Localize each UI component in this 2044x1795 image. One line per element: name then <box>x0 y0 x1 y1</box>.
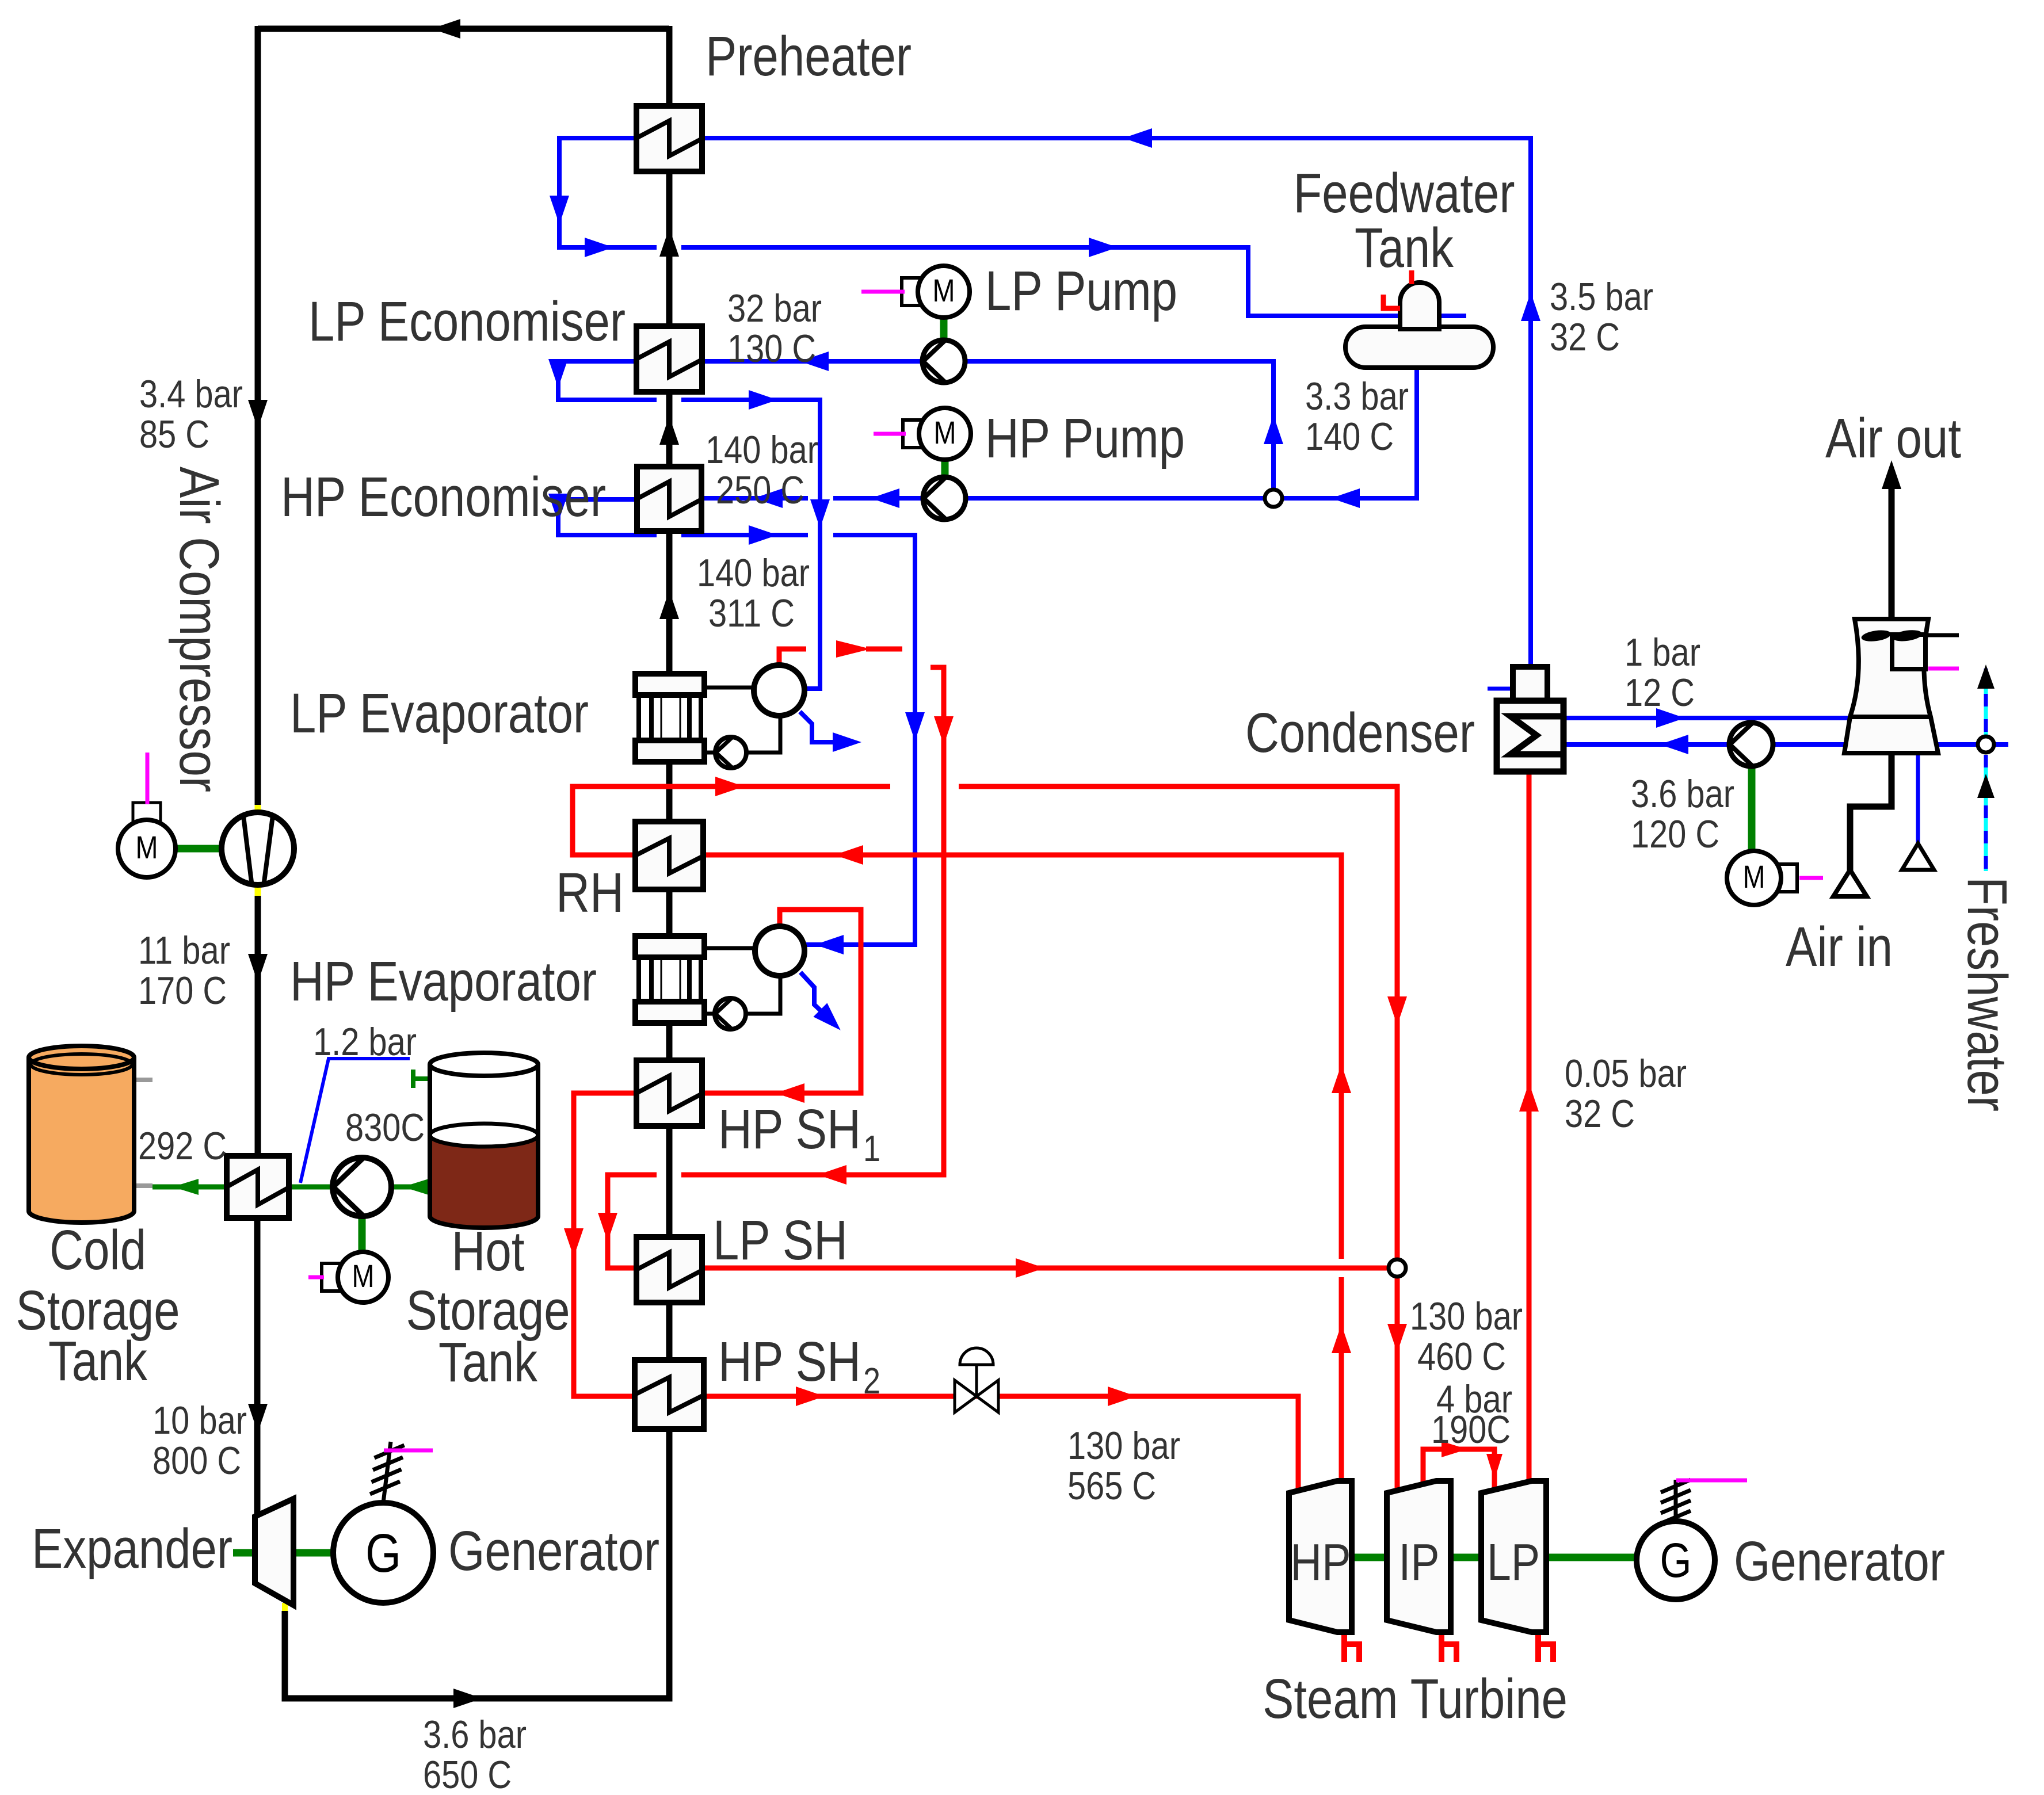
svg-text:3.6 bar: 3.6 bar <box>1631 772 1734 816</box>
arrow duct up 3 <box>659 590 679 619</box>
svg-text:32 bar: 32 bar <box>727 287 822 330</box>
wire air pipe TES HX to expander <box>254 1218 261 1519</box>
arrow HP steam right 2 <box>1108 1387 1137 1406</box>
pump HP feed pump <box>923 477 966 520</box>
wire shaft compressor motor <box>176 845 222 853</box>
svg-text:650 C: 650 C <box>423 1753 512 1795</box>
wire shaft expander generator <box>233 1549 255 1557</box>
svg-text:460 C: 460 C <box>1417 1335 1506 1378</box>
svg-text:1.2 bar: 1.2 bar <box>313 1020 417 1064</box>
wire 1.2 bar leader line <box>300 1059 410 1183</box>
tank feedwater deaerator <box>1345 282 1493 368</box>
wire LP turbine gland leak h <box>1535 1633 1541 1662</box>
arrow HP econ loop right <box>749 525 777 545</box>
wire HP drum blowdown zigzag <box>800 972 826 1016</box>
svg-text:Air Compressor: Air Compressor <box>168 467 231 792</box>
svg-text:292 C: 292 C <box>138 1124 227 1168</box>
arrow hot reheat down 1 <box>1387 996 1407 1025</box>
arrow tank feed right 1 <box>585 238 613 257</box>
wire air in elbow <box>1850 753 1892 871</box>
svg-text:RH: RH <box>556 861 624 924</box>
wire shaft TES pump motor <box>359 1215 366 1253</box>
arrow air right 3.6bar <box>453 1689 482 1708</box>
arrow HP drum line down <box>905 712 925 741</box>
wire HP pump to HP economiser <box>833 496 924 501</box>
svg-text:Tank: Tank <box>1355 216 1454 279</box>
svg-text:3.5 bar: 3.5 bar <box>1550 275 1653 319</box>
arrow preheater loop down <box>550 196 569 224</box>
wire LP pump to LP economiser <box>703 359 922 364</box>
wire HP SH1 outlet to HP SH2 <box>574 1093 637 1396</box>
turbine expander <box>255 1499 293 1607</box>
arrow cold reheat up 2 <box>1332 1324 1351 1353</box>
arrow into RH <box>834 845 863 865</box>
svg-text:Generator: Generator <box>1734 1530 1945 1592</box>
svg-text:140 bar: 140 bar <box>706 428 818 472</box>
svg-text:311 C: 311 C <box>708 591 795 635</box>
svg-text:G: G <box>1660 1533 1692 1587</box>
wire condenser vent stub <box>1488 687 1513 691</box>
ground air in triangle <box>1833 870 1867 896</box>
motor HP pump M <box>903 408 971 460</box>
svg-text:M: M <box>934 414 956 450</box>
wire LP economiser loop to LP drum <box>558 361 657 400</box>
wire LP drum blowdown zigzag <box>800 712 841 742</box>
svg-text:Air out: Air out <box>1825 407 1961 469</box>
arrow tank out left <box>1331 488 1360 508</box>
arrow hot reheat down 2 <box>1387 1324 1407 1353</box>
arrow salt left 1 <box>173 1179 199 1195</box>
heat-exchanger HP Economiser <box>637 467 701 531</box>
arrow HP SH1 loop down <box>564 1228 584 1257</box>
wire preheater outlet to feedwater tank <box>559 138 657 247</box>
arrow freshwater up top <box>1977 664 1995 689</box>
arrow tank feed right 2 <box>1089 238 1118 257</box>
arrow cooling supply right <box>1656 708 1685 728</box>
svg-text:LP Evaporator: LP Evaporator <box>290 682 589 744</box>
motor compressor M <box>118 803 176 877</box>
arrow LP exhaust up <box>1519 1083 1539 1112</box>
wire magenta LP pump motor <box>861 290 905 294</box>
turbine HP <box>1289 1481 1352 1632</box>
svg-text:Preheater: Preheater <box>706 25 912 87</box>
svg-text:Hot: Hot <box>452 1220 525 1282</box>
svg-text:Tank: Tank <box>438 1331 537 1393</box>
heat-exchanger TES air-salt <box>227 1156 289 1218</box>
pump HP circulation pump <box>715 998 746 1029</box>
wire feedwater tank downcomer <box>966 368 1417 498</box>
wire HP drum steam to HP SH1 <box>703 910 861 1093</box>
wire HRSG duct vertical <box>666 26 673 109</box>
wire LP SH outlet to junction <box>703 1266 1397 1271</box>
pump LP circulation pump <box>715 737 746 768</box>
arrow air out up <box>1882 460 1901 489</box>
pump cooling water pump <box>1729 723 1773 766</box>
wire expander exhaust pipe <box>285 1430 669 1698</box>
wire molten salt line cold side <box>152 1185 227 1190</box>
arrow condensate up <box>1521 292 1540 321</box>
arrow into HP SH1 <box>776 1083 804 1103</box>
svg-text:830C: 830C <box>345 1106 425 1149</box>
wire red vent feedwater tank <box>1383 295 1400 308</box>
svg-text:HP Pump: HP Pump <box>985 407 1185 469</box>
tank hot storage cylinder <box>430 1053 538 1228</box>
svg-text:HP Economiser: HP Economiser <box>281 465 606 528</box>
arrow suction riser up <box>1264 415 1283 444</box>
svg-text:LP Pump: LP Pump <box>985 259 1177 322</box>
arrow into LP economiser <box>800 352 829 371</box>
svg-text:M: M <box>1743 858 1765 895</box>
wire LP exhaust to condenser <box>1527 772 1532 1482</box>
svg-text:0.05 bar: 0.05 bar <box>1565 1052 1687 1095</box>
svg-text:32 C: 32 C <box>1550 315 1620 359</box>
turbine LP <box>1481 1481 1546 1632</box>
wire magenta cooling pump motor <box>1799 876 1823 880</box>
svg-text:800 C: 800 C <box>152 1439 241 1483</box>
arrow LP steam left <box>818 1165 846 1185</box>
arrow into HP economiser 1 <box>754 488 783 508</box>
node freshwater tee <box>1978 736 1994 753</box>
svg-text:Tank: Tank <box>48 1330 147 1392</box>
svg-text:1 bar: 1 bar <box>1624 631 1700 674</box>
wire air pipe top horizontal <box>258 26 669 32</box>
svg-text:M: M <box>933 272 955 308</box>
condenser <box>1497 667 1563 772</box>
arrow LP steam down <box>934 716 954 745</box>
motor cooling pump M <box>1727 851 1797 905</box>
arrow duct up 2 <box>659 416 679 445</box>
wire cooling return from tower <box>1563 742 2008 747</box>
svg-text:Condenser: Condenser <box>1245 701 1475 764</box>
svg-text:Feedwater: Feedwater <box>1294 162 1515 224</box>
svg-text:170 C: 170 C <box>138 969 227 1013</box>
arrow air down 3.4bar <box>248 400 268 429</box>
svg-text:G: G <box>365 1523 401 1584</box>
arrow LP drum feed down <box>810 499 830 528</box>
wire shaft cooling pump motor <box>1748 765 1756 852</box>
heat-exchanger HP SH2 <box>635 1360 704 1429</box>
arrow salt left 2 <box>403 1179 429 1195</box>
svg-text:HP SH: HP SH <box>718 1098 861 1160</box>
pump TES salt pump <box>333 1158 391 1216</box>
wire shaft HP pump motor <box>941 459 949 478</box>
svg-text:130 C: 130 C <box>727 327 816 371</box>
arrow hot reheat right <box>715 777 744 796</box>
svg-text:140 bar: 140 bar <box>697 551 810 595</box>
heat-exchanger LP Economiser <box>636 326 702 392</box>
wire magenta TES motor <box>308 1275 324 1280</box>
svg-text:LP Economiser: LP Economiser <box>308 290 626 353</box>
arrow cold reheat up 1 <box>1332 1064 1351 1093</box>
wire IP turbine gland leak h <box>1439 1633 1444 1662</box>
svg-text:HP: HP <box>1291 1534 1351 1591</box>
svg-text:120 C: 120 C <box>1631 812 1719 856</box>
arrow LP steam down 2 <box>598 1213 617 1242</box>
svg-text:32 C: 32 C <box>1565 1092 1635 1136</box>
svg-text:Freshwater: Freshwater <box>1956 877 2019 1112</box>
wire air out line <box>1889 480 1895 619</box>
svg-text:130 bar: 130 bar <box>1067 1424 1180 1468</box>
wire magenta HP pump motor <box>874 432 906 436</box>
svg-text:3.3 bar: 3.3 bar <box>1305 375 1409 418</box>
svg-text:HP Evaporator: HP Evaporator <box>290 950 597 1013</box>
wire HP SH2 outlet to HP turbine <box>703 1396 1298 1491</box>
svg-text:3.4 bar: 3.4 bar <box>139 372 243 416</box>
heat-exchanger RH reheater <box>635 822 703 889</box>
heat-exchanger HP SH1 <box>636 1060 702 1126</box>
svg-text:HP SH: HP SH <box>718 1330 861 1393</box>
wire molten salt line pump to hot tank <box>391 1185 430 1190</box>
svg-text:IP: IP <box>1399 1534 1440 1591</box>
wire cold tank gray stubs <box>134 1078 152 1082</box>
pump LP feed pump <box>922 340 965 383</box>
svg-text:M: M <box>352 1258 375 1294</box>
turbine IP <box>1387 1481 1451 1632</box>
arrow HP steam right 1 <box>796 1387 825 1406</box>
node LP steam reheat tee <box>1389 1259 1406 1277</box>
evaporator HP finned block <box>635 936 704 1023</box>
node feedwater suction tee <box>1265 490 1282 507</box>
wire freshwater makeup dashed lower <box>1984 755 1988 871</box>
wire cold reheat HP exhaust to RH <box>1339 1277 1344 1482</box>
arrow into HP economiser 2 <box>871 488 899 508</box>
svg-text:Expander: Expander <box>32 1517 232 1580</box>
wire air pipe left vertical <box>255 26 261 805</box>
svg-text:Steam Turbine: Steam Turbine <box>1263 1667 1568 1730</box>
wire freshwater makeup dashed upper <box>1984 669 1988 736</box>
arrow HP econ loop down <box>548 494 568 522</box>
arrow crossover right <box>1442 1441 1467 1457</box>
motor TES pump M <box>322 1252 388 1303</box>
svg-text:250 C: 250 C <box>716 468 804 512</box>
svg-text:LP: LP <box>1487 1534 1540 1591</box>
svg-text:M: M <box>136 829 158 865</box>
arrow cooling return left <box>1660 735 1688 754</box>
svg-text:11 bar: 11 bar <box>138 929 230 972</box>
arrow freshwater up bottom <box>1977 774 1995 798</box>
arrow air top left <box>432 19 460 39</box>
svg-text:85 C: 85 C <box>139 413 209 456</box>
svg-text:1: 1 <box>863 1128 880 1169</box>
svg-text:LP SH: LP SH <box>713 1209 848 1271</box>
heat-exchanger LP SH <box>636 1237 702 1303</box>
svg-text:2: 2 <box>863 1360 880 1401</box>
wire IP to LP crossover 4 bar <box>1423 1449 1494 1490</box>
svg-text:10 bar: 10 bar <box>152 1399 247 1442</box>
svg-text:Air in: Air in <box>1786 915 1893 978</box>
valve HP steam control valve <box>955 1348 998 1412</box>
svg-text:Cold: Cold <box>49 1219 146 1281</box>
arrow into HP drum left <box>815 935 844 954</box>
wire air pipe compressor to TES HX <box>255 895 261 1156</box>
wire hot tank top stub green <box>413 1076 430 1081</box>
tank cold storage cylinder <box>29 1046 134 1223</box>
arrow duct up 1 <box>659 228 679 257</box>
svg-text:190C: 190C <box>1431 1408 1511 1452</box>
arrow LP econ loop down <box>548 359 568 388</box>
heat-exchanger Preheater <box>636 106 702 171</box>
svg-text:140 C: 140 C <box>1305 415 1394 459</box>
generator steam-side G <box>1637 1480 1715 1599</box>
arrow air down 11bar <box>248 954 268 983</box>
wire magenta steam generator <box>1676 1479 1747 1483</box>
wire magenta compressor motor <box>146 753 150 804</box>
arrow LP econ loop right <box>749 390 777 410</box>
wire LP steam down to LP SH <box>681 667 944 1175</box>
arrow LP SH out right <box>1016 1258 1044 1278</box>
wire HP economiser loop to HP drum <box>558 499 657 535</box>
svg-text:565 C: 565 C <box>1067 1464 1156 1508</box>
wire shaft steam turbine <box>1352 1554 1387 1561</box>
compressor air compressor <box>222 805 294 896</box>
svg-text:12 C: 12 C <box>1624 671 1695 715</box>
wire condensate line to preheater 3.5bar <box>703 138 1531 667</box>
wire condenser cooling supply to tower <box>1563 716 1850 720</box>
wire LP pump suction riser <box>965 361 1273 498</box>
wire tower drain blue <box>1916 753 1920 845</box>
arrow into preheater left <box>1123 128 1152 148</box>
wire magenta tower fan <box>1928 667 1959 671</box>
evaporator LP finned block <box>635 674 704 762</box>
wire LP drum steam line <box>779 649 806 666</box>
wire magenta air generator <box>384 1449 433 1453</box>
wire hot reheat RH to IP turbine <box>573 786 890 855</box>
wire molten salt line TES to pump <box>289 1185 333 1190</box>
wire shaft LP pump motor <box>940 316 948 340</box>
motor LP pump M <box>902 266 970 318</box>
drum HP steam drum <box>704 926 804 1014</box>
wire HP turbine gland leak h <box>1341 1633 1347 1662</box>
arrow air down 10bar <box>248 1404 268 1433</box>
svg-text:130 bar: 130 bar <box>1410 1294 1523 1338</box>
arrow crossover down <box>1486 1454 1503 1480</box>
svg-text:Generator: Generator <box>448 1519 659 1582</box>
ground tower drain triangle <box>1902 843 1934 870</box>
cooling-tower <box>1844 619 1959 753</box>
generator air-side G <box>333 1442 433 1603</box>
drum LP steam drum <box>704 665 804 753</box>
svg-text:3.6 bar: 3.6 bar <box>423 1713 527 1756</box>
